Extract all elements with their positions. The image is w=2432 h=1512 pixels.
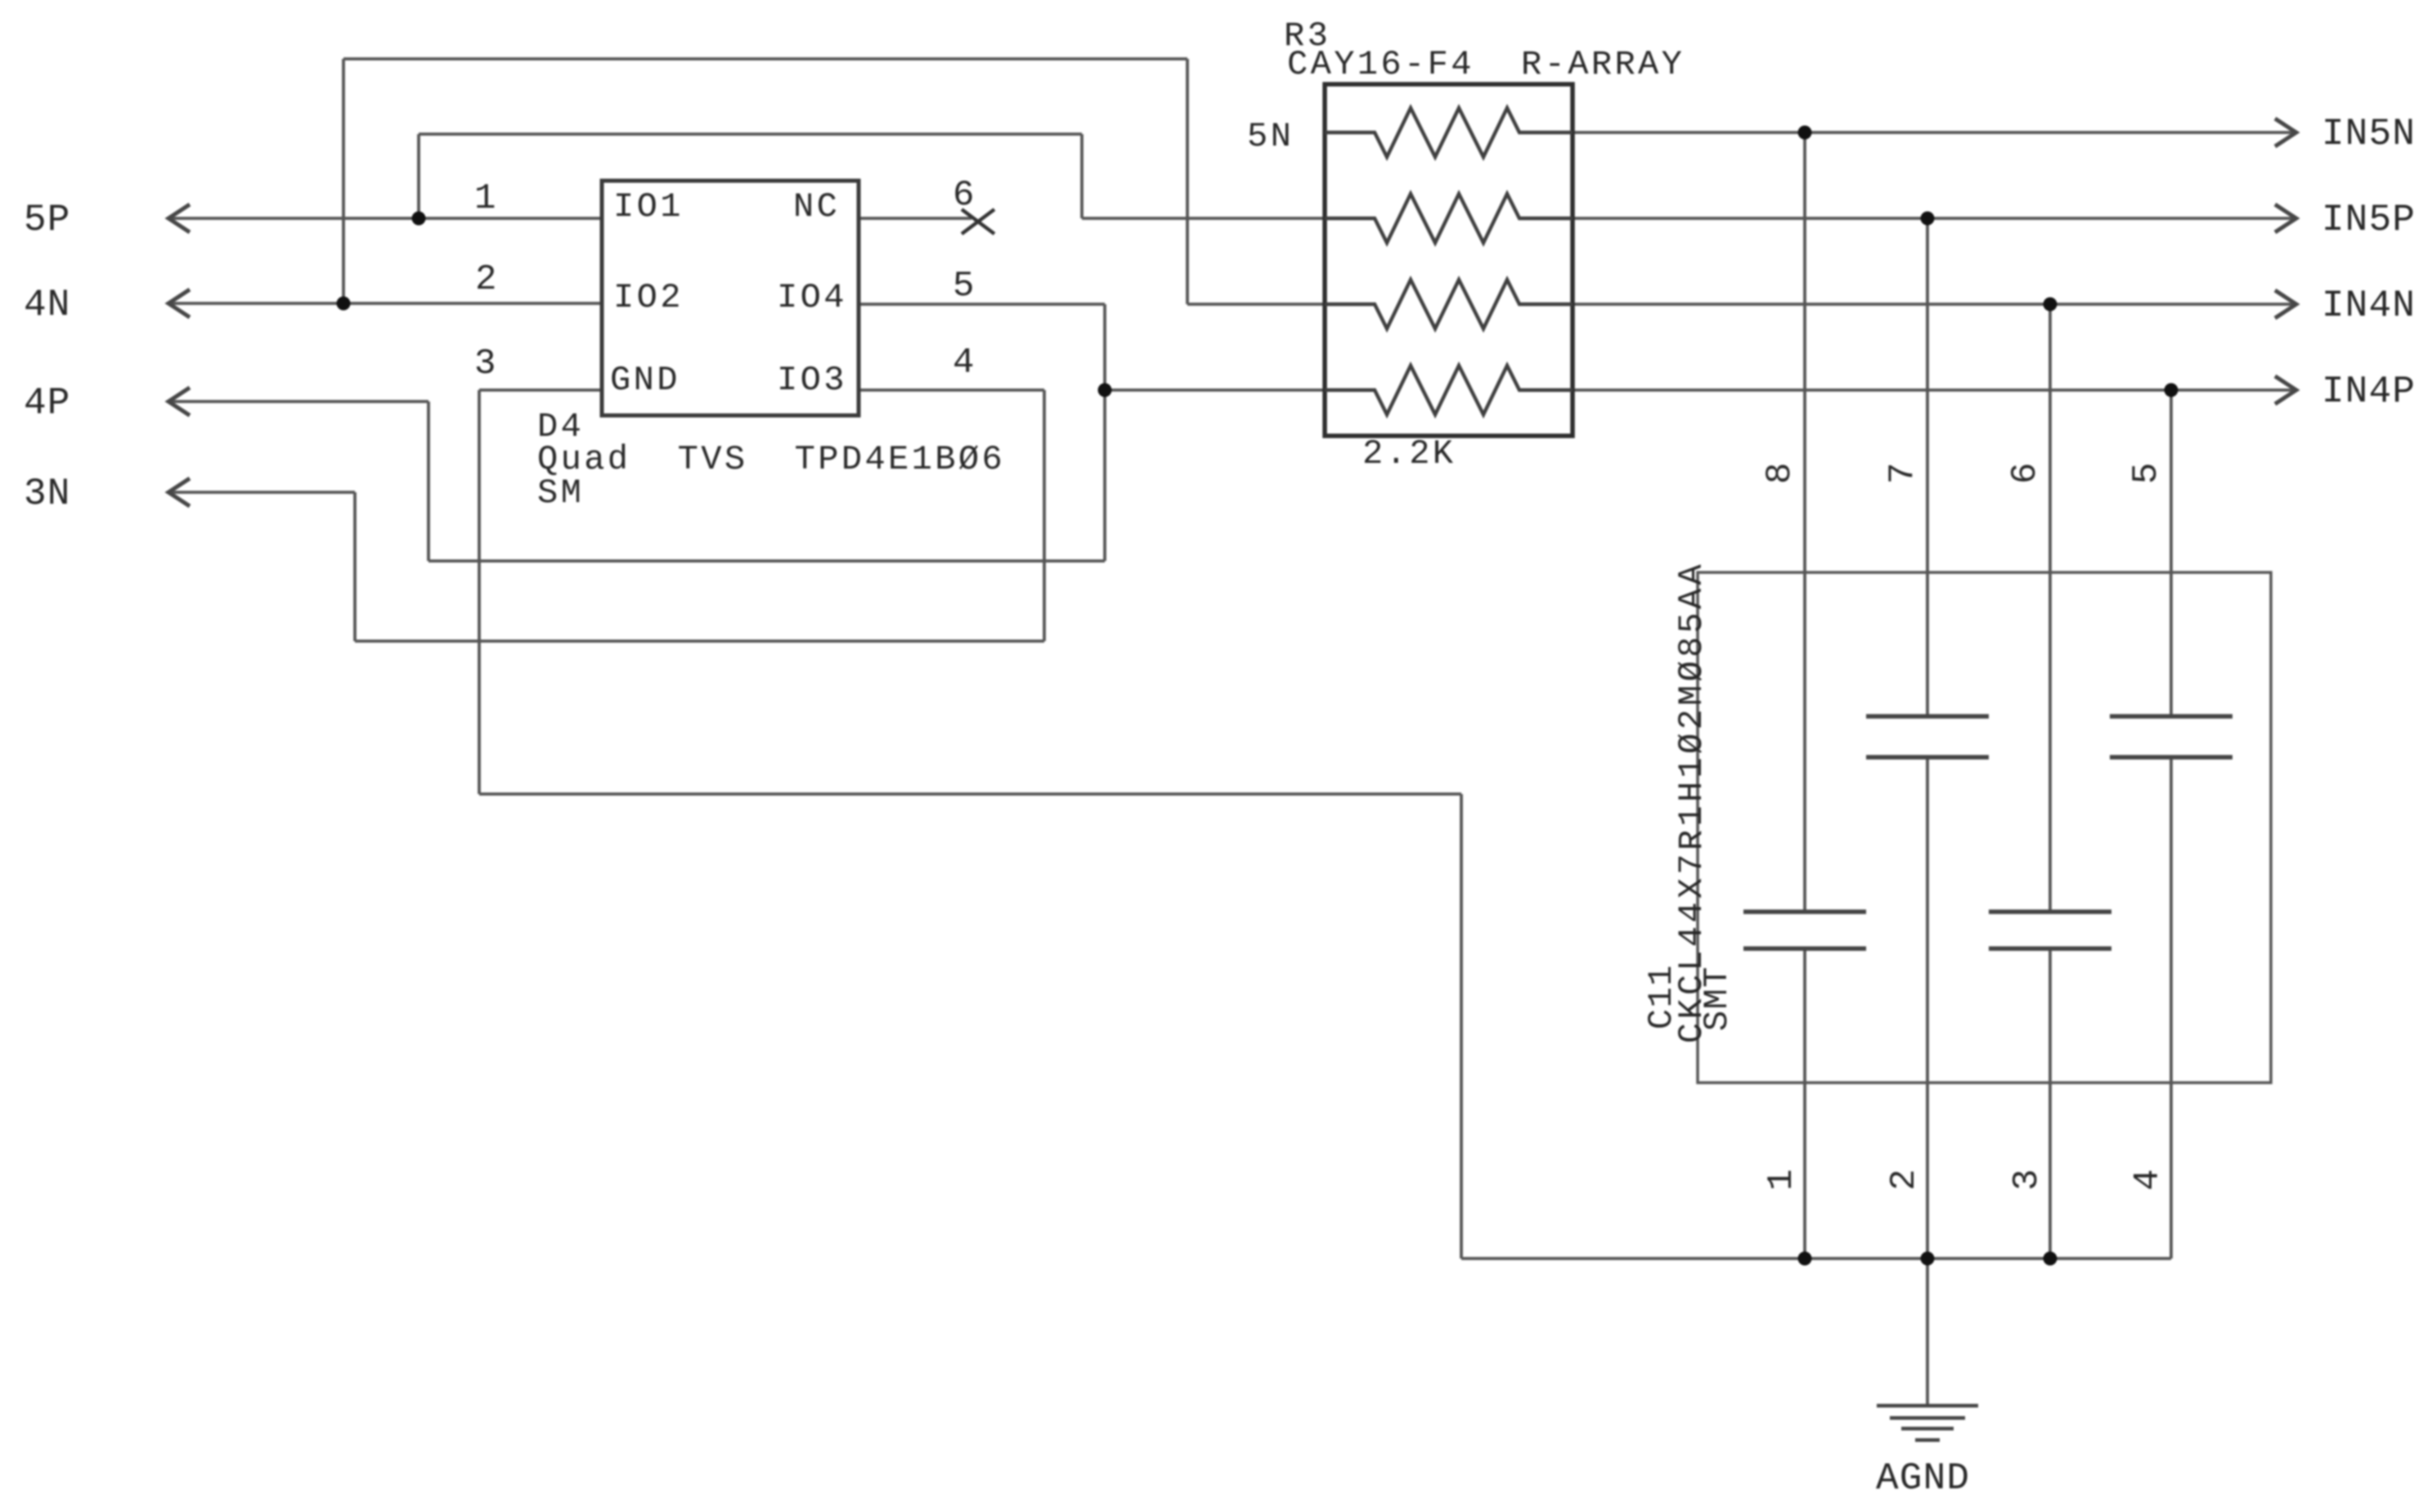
svg-text:5: 5: [953, 266, 975, 307]
svg-text:NC: NC: [793, 187, 840, 227]
svg-text:IN4N: IN4N: [2322, 285, 2416, 327]
svg-text:5P: 5P: [24, 199, 71, 241]
svg-text:IN4P: IN4P: [2322, 370, 2416, 413]
svg-text:SM: SM: [537, 473, 584, 513]
svg-text:6: 6: [953, 175, 975, 216]
svg-text:4N: 4N: [24, 284, 71, 326]
svg-text:IO4: IO4: [777, 278, 847, 317]
svg-text:AGND: AGND: [1876, 1457, 1970, 1500]
svg-text:7: 7: [1882, 462, 1923, 484]
svg-text:2: 2: [475, 259, 497, 300]
svg-text:2: 2: [1884, 1169, 1925, 1191]
svg-text:IO1: IO1: [613, 187, 684, 227]
svg-text:4: 4: [953, 343, 975, 384]
svg-text:Quad TVS TPD4E1BØ6: Quad TVS TPD4E1BØ6: [537, 440, 1005, 479]
svg-text:1: 1: [474, 178, 496, 219]
svg-text:IO3: IO3: [777, 361, 847, 400]
svg-text:4: 4: [2128, 1169, 2169, 1191]
svg-text:GND: GND: [610, 361, 680, 400]
svg-text:5: 5: [2126, 462, 2167, 484]
svg-text:SMT: SMT: [1698, 966, 1737, 1031]
svg-text:2.2K: 2.2K: [1362, 434, 1456, 473]
svg-text:IO2: IO2: [613, 278, 684, 317]
svg-text:IN5N: IN5N: [2322, 113, 2416, 155]
svg-text:5N: 5N: [1247, 117, 1294, 156]
svg-text:6: 6: [2005, 462, 2046, 484]
svg-text:8: 8: [1760, 462, 1801, 484]
svg-text:3: 3: [2007, 1169, 2048, 1191]
svg-text:4P: 4P: [24, 382, 71, 424]
svg-text:IN5P: IN5P: [2322, 199, 2416, 241]
svg-text:CAY16-F4 R-ARRAY: CAY16-F4 R-ARRAY: [1287, 45, 1685, 84]
svg-text:1: 1: [1761, 1169, 1802, 1191]
svg-text:3N: 3N: [24, 473, 71, 515]
svg-text:3: 3: [474, 343, 496, 384]
